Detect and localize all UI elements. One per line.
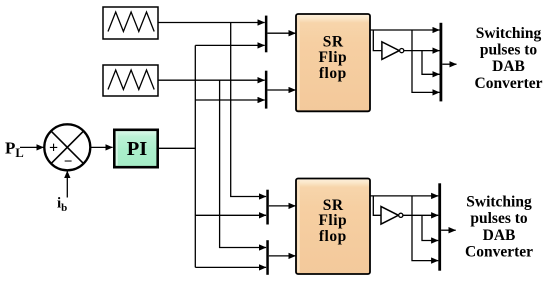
mux bar 1	[265, 16, 268, 53]
svg-text:PL: PL	[5, 139, 24, 161]
wire PI to mux bar 4	[195, 266, 266, 268]
svg-text:Switching: Switching	[466, 193, 532, 210]
svg-text:flop: flop	[319, 65, 347, 82]
svg-text:Converter: Converter	[465, 244, 533, 261]
wire branch to NOT gate 2	[373, 196, 381, 215]
NOT gate 2	[381, 207, 403, 225]
svg-text:−: −	[64, 154, 73, 170]
svg-text:Switching: Switching	[476, 25, 542, 42]
label ib	[57, 196, 67, 215]
wire PI to mux bar 1	[195, 44, 264, 46]
wire summing junction to PI	[91, 146, 113, 148]
carrier generator box 1 (triangle wave source)	[103, 7, 158, 39]
wire PL input arrow	[20, 146, 44, 148]
label switching pulses bottom	[465, 193, 533, 260]
svg-text:pulses to: pulses to	[470, 210, 528, 227]
wire SR2 Q output to output bar 2	[370, 195, 438, 197]
mux bar 4	[266, 240, 269, 275]
carrier generator box 2 (triangle wave source)	[103, 65, 158, 96]
wire NOT2 branch down to output bar 2 input 3	[422, 215, 438, 240]
output bar 2 (mux)	[438, 183, 441, 270]
SR flip flop 2	[296, 179, 370, 275]
wire output arrow 2	[441, 229, 456, 231]
wire carrier1 branch down to mux bar 3	[231, 23, 266, 197]
wire branch to NOT gate 1	[373, 30, 382, 51]
svg-text:ib: ib	[57, 196, 67, 215]
NOT gate 1	[382, 42, 404, 60]
wire mux bar 1 to SR flip flop 1 S input	[267, 32, 295, 34]
mux bar 2	[265, 71, 268, 109]
SR flip flop 1	[296, 14, 370, 111]
svg-text:+: +	[49, 140, 58, 157]
label PL	[5, 139, 24, 161]
wire carrier2 branch down to mux bar 4	[220, 80, 267, 247]
svg-text:Converter: Converter	[475, 75, 543, 92]
wire mux bar 2 to SR flip flop 1 R input	[267, 89, 295, 91]
svg-text:pulses to: pulses to	[480, 42, 538, 59]
wire SR1 Q output to output bar 1	[370, 29, 440, 31]
svg-text:DAB: DAB	[483, 227, 516, 244]
wire PI to mux bar 2	[195, 99, 264, 101]
wire PI output	[158, 147, 196, 149]
summing junction	[44, 124, 90, 170]
wire mux bar 4 to SR flip flop 2 R input	[269, 255, 296, 257]
svg-text:flop: flop	[319, 228, 347, 245]
output bar 1 (mux)	[440, 23, 443, 102]
wire output arrow 1	[442, 63, 456, 65]
wire PI to mux bar 3	[195, 214, 266, 216]
wire PI vertical bus	[194, 45, 196, 267]
wire mux bar 3 to SR flip flop 2 S input	[269, 205, 296, 207]
wire carrier2 output to mux bar 2	[158, 79, 265, 81]
svg-text:DAB: DAB	[492, 58, 525, 75]
wire Q branch down to output bar 1 input 4	[412, 30, 440, 92]
mux bar 3	[266, 190, 269, 225]
svg-text:Flip: Flip	[318, 49, 347, 66]
label switching pulses top	[475, 25, 543, 92]
wire ib input arrow	[66, 171, 68, 198]
wire NOT gate 2 output to output bar 2	[403, 214, 438, 216]
svg-text:Flip: Flip	[318, 212, 347, 229]
wire NOT1 branch down to output bar 1 input 3	[422, 51, 440, 75]
wire carrier1 output to mux bar 1	[158, 22, 265, 24]
wire Q branch down to output bar 2 input 4	[412, 196, 438, 261]
svg-text:PI: PI	[127, 138, 148, 160]
wire NOT gate 1 output to output bar 1	[404, 50, 440, 52]
PI controller block	[114, 130, 157, 167]
svg-text:SR: SR	[323, 34, 344, 51]
